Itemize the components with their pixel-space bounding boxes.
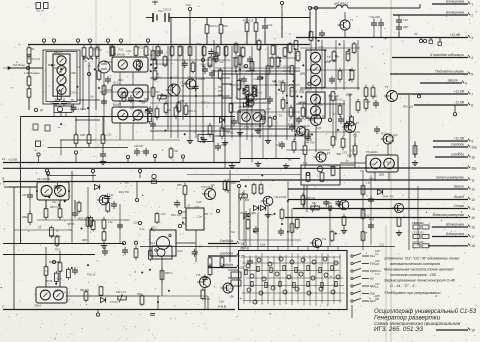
- capacitor Cx43: [335, 199, 341, 207]
- wire riser: [119, 204, 121, 244]
- wire: [145, 44, 147, 46]
- terminal: [34, 108, 37, 111]
- resistor Rx29: [91, 219, 95, 231]
- svg-text:Блокировка: Блокировка: [446, 232, 464, 236]
- terminal Гн3: [188, 7, 191, 17]
- capacitor C37: [260, 114, 266, 122]
- wire: [176, 242, 196, 244]
- junction: [87, 107, 89, 109]
- svg-text:R61 120: R61 120: [327, 163, 338, 167]
- svg-text:12: 12: [471, 187, 475, 191]
- wire: [225, 44, 227, 46]
- resistor Rx37: [155, 212, 159, 224]
- transistor Т11: [97, 195, 109, 205]
- wire riser: [294, 48, 296, 140]
- terminal R9 bottom: [74, 151, 77, 163]
- resistor R65: [44, 206, 48, 220]
- svg-text:680: 680: [180, 99, 185, 103]
- capacitor C18: [396, 17, 402, 25]
- svg-text:R44 750: R44 750: [383, 194, 394, 198]
- terminal on rail 2: [153, 154, 156, 162]
- resistor R77: [259, 183, 263, 195]
- net Запуск terminal 6: [420, 78, 467, 85]
- junction: [81, 228, 83, 230]
- svg-text:КТ315: КТ315: [120, 94, 128, 98]
- logic unit internal mesh: [242, 253, 345, 306]
- resistor R108: [361, 208, 365, 220]
- logic box pin 3: [267, 247, 269, 251]
- junction x5: [76, 86, 78, 88]
- svg-text:20: 20: [240, 266, 244, 270]
- wire: [373, 18, 375, 21]
- wire: [215, 70, 300, 72]
- svg-text:Гн3: Гн3: [186, 3, 191, 7]
- junction: [261, 174, 263, 176]
- wire link: [306, 69, 356, 71]
- wire: [160, 95, 230, 97]
- wire: [189, 44, 191, 46]
- wire riser: [251, 133, 253, 163]
- wire riser center: [259, 46, 261, 138]
- junction: [319, 102, 321, 104]
- transistor module У13 МП16: [37, 182, 69, 200]
- svg-text:R22 R23: R22 R23: [243, 19, 254, 23]
- svg-text:Т14 КТ315: Т14 КТ315: [274, 196, 287, 199]
- svg-text:390: 390: [318, 103, 323, 107]
- wire riser: [213, 40, 215, 140]
- net Блокировка terminal 17: [432, 232, 475, 239]
- svg-text:R61 120: R61 120: [403, 105, 414, 109]
- resistor R26: [153, 69, 157, 81]
- wire: [238, 187, 240, 240]
- wire: [374, 172, 376, 181]
- resistor R62: [303, 143, 307, 157]
- resistor R52: [289, 105, 293, 119]
- wire link: [296, 131, 360, 133]
- wire rail mid: [3, 167, 340, 169]
- wire: [398, 15, 400, 17]
- none: [349, 207, 420, 209]
- wire: [119, 72, 121, 85]
- svg-text:МП35: МП35: [299, 101, 307, 105]
- svg-text:-12,6В: -12,6В: [454, 100, 465, 104]
- svg-text:С18: С18: [253, 77, 258, 81]
- wire riser: [152, 46, 154, 140]
- terminal: [46, 171, 49, 182]
- svg-text:R57: R57: [369, 217, 374, 221]
- svg-text:С18: С18: [133, 221, 138, 225]
- svg-text:Т12: Т12: [353, 134, 358, 138]
- resistor R83: [99, 286, 103, 296]
- terminal: [138, 169, 141, 178]
- svg-text:ИГ3. 265. 051 Э3: ИГ3. 265. 051 Э3: [374, 326, 424, 333]
- switch contact В1Ж: [351, 298, 376, 303]
- svg-text:11: 11: [471, 178, 475, 182]
- switch box Л2-3: [152, 246, 172, 259]
- resistor R74: [331, 166, 335, 176]
- svg-text:+12,6В: +12,6В: [453, 136, 464, 140]
- ground: [265, 138, 271, 144]
- capacitor Cx23: [344, 121, 350, 129]
- wire: [229, 170, 231, 262]
- net Подсветка terminal 5: [390, 69, 473, 76]
- wire: [217, 44, 219, 46]
- wire: [75, 143, 77, 147]
- transistor Т5: [184, 79, 197, 89]
- terminal Гн4: [280, 1, 283, 17]
- wire rail НВВ: [3, 309, 235, 311]
- switch contact В1Г: [351, 276, 375, 281]
- junction: [348, 49, 350, 51]
- wire: [245, 219, 247, 247]
- junction: [48, 196, 50, 198]
- svg-text:С33: С33: [194, 205, 199, 209]
- capacitor C35: [296, 116, 302, 124]
- junction: [138, 65, 140, 67]
- wire riser center: [231, 46, 233, 138]
- wire riser right-center: [310, 40, 312, 90]
- diode Д10: [94, 184, 99, 189]
- wire: [306, 164, 355, 166]
- resistor R31: [184, 103, 188, 117]
- net Свобода terminal 15m: [208, 251, 244, 258]
- wire rail extension: [240, 158, 300, 160]
- svg-text:Т8: Т8: [45, 269, 49, 273]
- wire riser Л2-3: [161, 256, 163, 296]
- junction x21: [293, 80, 295, 82]
- logic box pin 1: [247, 247, 249, 251]
- svg-text:R12: R12: [177, 249, 182, 253]
- transistor Т13: [202, 189, 216, 200]
- resistor R59: [364, 85, 368, 99]
- resistor R66: [58, 206, 62, 220]
- terminal: [306, 172, 309, 175]
- resistor R12: [111, 45, 115, 57]
- svg-text:Подсветка шкалы: Подсветка шкалы: [435, 69, 464, 73]
- switch contact В1Д: [351, 283, 375, 288]
- wire: [28, 97, 30, 110]
- capacitor C28: [72, 267, 78, 275]
- junction: [245, 185, 247, 187]
- switch contact В1Е: [351, 291, 375, 296]
- small box under shield: [54, 106, 72, 113]
- ground: [412, 160, 418, 166]
- resistor R85: [160, 268, 164, 282]
- capacitor C21: [279, 141, 285, 149]
- resistor R53: [301, 105, 305, 119]
- transistor Т4 1ТЗ08В: [166, 84, 181, 96]
- resistor R95: [250, 61, 254, 71]
- svg-text:К выводам индикации: К выводам индикации: [430, 53, 464, 57]
- logic box pin 4: [277, 247, 279, 251]
- ground: [222, 140, 228, 146]
- svg-text:Д9Б: Д9Б: [379, 173, 384, 177]
- svg-text:С9 0,1: С9 0,1: [70, 90, 78, 94]
- svg-text:Д9Б: Д9Б: [288, 83, 293, 87]
- wire: [246, 98, 248, 140]
- svg-text:Т6: Т6: [322, 114, 326, 118]
- wire: [119, 123, 121, 140]
- wire: [220, 18, 222, 25]
- junction: [335, 233, 337, 235]
- svg-text:Максимальная частота точек авт: Максимальная частота точек автома-: [384, 268, 455, 272]
- svg-text:0,25: 0,25: [57, 70, 63, 74]
- resistor R110: [397, 217, 401, 227]
- capacitor Cx42: [323, 199, 329, 207]
- svg-text:11а: 11а: [471, 166, 476, 170]
- wire: [132, 123, 134, 140]
- resistor R6: [82, 45, 86, 59]
- terminal К1: [42, 39, 45, 45]
- svg-text:R44 750: R44 750: [119, 190, 130, 194]
- RC column label R101: [375, 270, 382, 276]
- resistor R87a: [208, 256, 212, 268]
- wire riser: [309, 12, 311, 38]
- terminal: [419, 39, 422, 42]
- wire: [351, 305, 353, 318]
- resistor R72: [306, 172, 310, 182]
- resistor network box: [301, 165, 340, 185]
- wire riser center: [251, 46, 253, 138]
- wire: [439, 38, 441, 43]
- junction: [259, 125, 261, 127]
- connector square b: [438, 42, 441, 45]
- wire: [132, 101, 134, 107]
- resistor R114: [271, 45, 275, 55]
- junction: [275, 84, 277, 86]
- resistor R73: [320, 172, 324, 182]
- ground: [187, 138, 193, 144]
- svg-text:С7: С7: [88, 64, 92, 68]
- svg-text:4: 4: [471, 56, 473, 60]
- resistor R37: [241, 46, 245, 58]
- wire: [88, 143, 90, 147]
- resistor R68: [102, 229, 106, 243]
- capacitor C38: [101, 98, 107, 106]
- ground: [255, 128, 261, 134]
- wire: [430, 38, 432, 41]
- wire: [257, 212, 259, 247]
- svg-text:R65а: R65а: [22, 216, 28, 219]
- resistor R21: [219, 22, 223, 36]
- resistor R82: [84, 290, 88, 302]
- wire: [150, 77, 230, 79]
- svg-text:13: 13: [471, 198, 475, 202]
- resistor R25: [163, 55, 167, 67]
- transistor module У3 6Н16Б: [112, 85, 148, 101]
- junction: [335, 55, 337, 57]
- capacitor C41: [368, 196, 374, 204]
- wire: [388, 172, 390, 181]
- terminal Т: [314, 6, 317, 10]
- terminal: [134, 241, 137, 244]
- wire: [340, 162, 366, 164]
- junction x8: [133, 119, 135, 121]
- capacitor C12: [262, 23, 268, 31]
- wire: [315, 126, 317, 153]
- wire: [75, 117, 77, 135]
- logic box pin 2: [257, 247, 259, 251]
- enclosure box edge top: [21, 116, 236, 118]
- junction: [287, 200, 289, 202]
- svg-text:390: 390: [229, 295, 234, 299]
- ground: [237, 130, 243, 136]
- resistor R107: [361, 184, 365, 196]
- svg-text:5,1к: 5,1к: [148, 53, 154, 57]
- capacitor C5: [61, 99, 67, 107]
- svg-text:МЦ4Г7: МЦ4Г7: [113, 103, 122, 107]
- wire: [150, 130, 230, 132]
- junction: [243, 217, 245, 219]
- terminal К4: [88, 39, 91, 45]
- svg-text:КТ315: КТ315: [110, 300, 118, 304]
- svg-text:С21: С21: [241, 64, 246, 68]
- logic box pin 10: [337, 247, 339, 251]
- wire: [414, 154, 416, 156]
- svg-text:R58: R58: [177, 184, 182, 187]
- capacitor C15: [378, 20, 384, 28]
- svg-text:С33: С33: [342, 151, 347, 155]
- svg-text:КТ315: КТ315: [290, 89, 298, 93]
- svg-text:1,5к: 1,5к: [89, 95, 95, 99]
- outer box center group: [222, 74, 294, 129]
- net +12,6В terminal 7: [398, 89, 473, 96]
- svg-text:КТ315: КТ315: [283, 64, 291, 68]
- svg-text:Внешняя развертка: Внешняя развертка: [433, 213, 465, 217]
- terminal on rail: [37, 153, 40, 163]
- capacitor Cx20: [208, 49, 214, 57]
- terminal on box edge: [45, 169, 48, 176]
- wire: [9, 186, 37, 188]
- junction: [195, 95, 197, 97]
- wire: [104, 89, 112, 91]
- junction: [295, 134, 297, 136]
- svg-text:+12,6В: +12,6В: [453, 89, 464, 93]
- svg-text:Т8: Т8: [288, 158, 292, 162]
- junction: [213, 70, 215, 72]
- capacitor Cx18: [212, 54, 218, 62]
- resistor Rx15: [177, 101, 181, 113]
- svg-text:0,25: 0,25: [389, 135, 395, 139]
- svg-text:680: 680: [337, 152, 342, 156]
- svg-text:УЗ-1 МП16: УЗ-1 МП16: [37, 177, 51, 181]
- svg-text:С46 С47: С46 С47: [134, 145, 144, 148]
- junction: [337, 129, 339, 131]
- wire link mid: [187, 174, 301, 176]
- transistor Т18: [244, 99, 255, 107]
- capacitor C30: [247, 258, 253, 266]
- wire: [208, 255, 240, 257]
- RC column label ДР5: [375, 295, 380, 301]
- junction: [318, 40, 320, 42]
- resistor Rx22: [352, 42, 356, 54]
- fuse Пр1: [36, 3, 48, 13]
- svg-text:тического контроля - 150: тического контроля - 150: [390, 273, 437, 277]
- resistor Rx9: [148, 111, 152, 123]
- svg-text:14: 14: [471, 207, 475, 211]
- svg-text:С10 20: С10 20: [163, 8, 172, 12]
- svg-text:5,1к: 5,1к: [139, 227, 145, 231]
- svg-text:Пр1 2А: Пр1 2А: [36, 10, 44, 13]
- wire: [28, 63, 30, 77]
- pad П2: [231, 280, 241, 286]
- resistor R19: [202, 45, 206, 57]
- svg-text:R25 1к: R25 1к: [94, 48, 103, 52]
- terminal К3: [76, 39, 79, 45]
- junction x7: [60, 123, 62, 125]
- svg-text:Запуск развертки: Запуск развертки: [436, 175, 464, 179]
- wire: [60, 113, 62, 117]
- wire: [206, 18, 208, 25]
- junction: [58, 204, 60, 206]
- svg-text:С7: С7: [296, 122, 300, 126]
- svg-text:R31: R31: [277, 143, 282, 147]
- resistor R45: [296, 50, 300, 62]
- wire top rail: [28, 44, 310, 46]
- wire: [49, 261, 60, 263]
- svg-text:ДР1: ДР1: [83, 56, 88, 59]
- wire: [45, 247, 47, 267]
- wire faint: [239, 239, 301, 241]
- diode Д9Б б: [260, 205, 265, 210]
- svg-text:R31: R31: [288, 123, 293, 127]
- wire: [60, 140, 62, 156]
- resistor R64: [413, 143, 417, 157]
- resistor R51: [253, 85, 257, 95]
- transistor module У2 6Н16Б: [112, 57, 148, 72]
- transistor Т8: [294, 127, 306, 136]
- wire link: [150, 125, 310, 127]
- terminal rail b: [181, 155, 184, 163]
- wire: [303, 185, 305, 208]
- svg-text:+12,6В: +12,6В: [8, 158, 17, 162]
- resistor R116: [331, 91, 335, 101]
- svg-text:R44 750: R44 750: [138, 111, 149, 115]
- svg-text:Свобода: Свобода: [220, 251, 233, 255]
- wire: [354, 154, 356, 168]
- svg-text:С18: С18: [403, 18, 408, 22]
- svg-text:5,1к: 5,1к: [252, 97, 258, 101]
- wire: [92, 173, 94, 182]
- wire left vertical: [13, 187, 15, 310]
- svg-text:Т8: Т8: [38, 225, 42, 229]
- wire rail З: [3, 181, 240, 183]
- svg-text:680: 680: [373, 95, 378, 99]
- none: [346, 310, 348, 319]
- capacitor C52b: [253, 226, 259, 234]
- wire riser: [362, 172, 364, 250]
- logic unit transistors: [246, 257, 340, 304]
- wire long vertical: [71, 171, 73, 243]
- junction: [339, 43, 341, 45]
- svg-text:R25 1к: R25 1к: [201, 101, 210, 105]
- resistor R118: [28, 211, 32, 225]
- logic box pin 8: [317, 247, 319, 251]
- svg-text:R44 750: R44 750: [301, 132, 312, 136]
- resistor R69: [55, 235, 59, 247]
- junction: [171, 85, 173, 87]
- capacitor C34: [257, 74, 263, 82]
- wire riser center: [195, 46, 197, 138]
- capacitor C22: [215, 143, 221, 151]
- resistor R109: [361, 230, 365, 242]
- wire: [267, 206, 269, 247]
- resistor R75: [301, 193, 305, 207]
- transistor Т6: [308, 115, 322, 126]
- svg-text:R92 4,7к*: R92 4,7к*: [116, 291, 126, 294]
- resistor Rx34: [77, 201, 81, 213]
- resistor R113: [229, 103, 233, 113]
